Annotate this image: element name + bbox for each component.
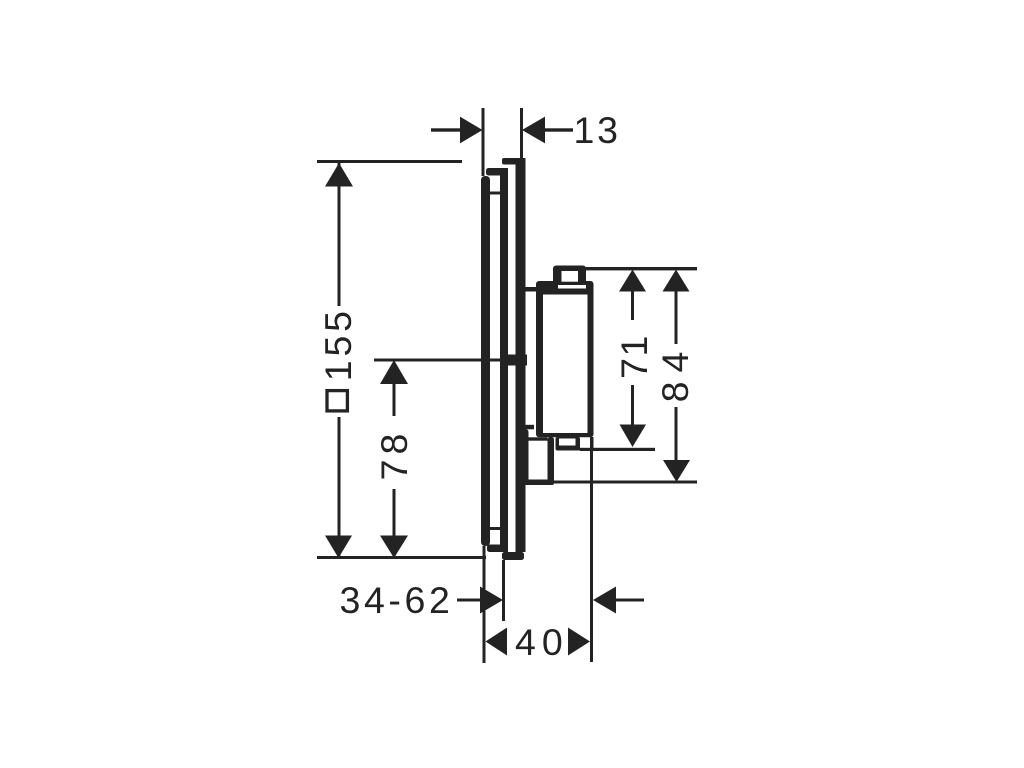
dim 84 top arrow: [663, 270, 690, 292]
dim 13 left tail line: [431, 128, 460, 131]
svg-text:84: 84: [654, 343, 696, 403]
dim 71 bottom arrow: [620, 425, 647, 448]
dim 78 line upper segment: [393, 384, 396, 416]
svg-text:71: 71: [613, 334, 655, 379]
dim 34-62 extension line: [502, 560, 505, 621]
dim 84 line lower segment: [675, 407, 678, 460]
bottom extension line: [317, 556, 486, 559]
slot divider top: [489, 192, 501, 195]
dim 13 label: [574, 109, 621, 151]
wall plate back panel: [481, 176, 490, 546]
dim 84 line upper segment: [675, 291, 678, 344]
dim 155 bottom arrow: [325, 536, 352, 559]
dim 84 bottom arrow: [663, 460, 690, 482]
lower housing: [517, 429, 554, 485]
svg-text:13: 13: [574, 109, 621, 151]
svg-text:78: 78: [373, 429, 415, 481]
top stub between plate and valve: [525, 287, 538, 292]
dim 71 label: [613, 334, 655, 379]
dim 155 label: [317, 307, 359, 411]
plate sleeve (middle bar with caps): [486, 168, 508, 552]
right side arrow tail line: [616, 599, 644, 602]
dim 78 label: [373, 429, 415, 481]
dim 13 right extension line: [520, 108, 523, 160]
svg-text:155: 155: [317, 307, 359, 381]
centerline: [374, 359, 502, 362]
valve top tab: [553, 266, 586, 286]
dim 34-62 tail line: [457, 599, 480, 602]
dim 155 top extension line: [317, 160, 462, 163]
dim 40 right extension line: [590, 450, 593, 662]
centerline bridge through plate: [500, 355, 527, 366]
svg-text:40: 40: [515, 621, 569, 663]
dim 13 left arrow: [460, 117, 483, 144]
bottom stub between plate and valve: [522, 425, 534, 430]
dim 155 top arrow: [325, 163, 353, 187]
slot divider bottom: [489, 527, 501, 530]
dim 13 right arrow: [522, 117, 545, 144]
dim 78 top arrow: [380, 360, 408, 384]
dim 34-62 label: [340, 579, 454, 621]
dim 71 line lower segment: [631, 385, 634, 429]
dim 71 bottom extension line: [580, 448, 656, 451]
dim 78 line lower segment: [393, 489, 396, 536]
plate front channel bar: [502, 158, 526, 560]
dim 40 right arrow: [568, 628, 590, 656]
valve bottom tab: [556, 437, 581, 451]
dim 71 top arrow: [619, 270, 646, 292]
dim 40 label: [515, 621, 569, 663]
dim 155 line upper segment: [338, 163, 341, 306]
dim 40 left extension line: [483, 546, 486, 663]
top right extension line: [583, 267, 697, 270]
valve body: [536, 281, 594, 437]
dim 71 line upper segment: [631, 291, 634, 320]
dim 78 bottom arrow: [380, 536, 408, 559]
dim 84 bottom extension line: [520, 481, 697, 484]
valve right wall extension: [590, 437, 594, 448]
dim 40 left arrow: [486, 628, 508, 656]
dim 13 left extension line: [482, 108, 485, 176]
dim 13 right tail line: [545, 128, 573, 131]
dim 84 label: [654, 343, 696, 403]
dim 155 line lower segment: [338, 417, 341, 558]
right side arrow pointing left: [593, 587, 616, 614]
svg-text:34-62: 34-62: [340, 579, 454, 621]
dim 34-62 arrow: [480, 587, 503, 614]
